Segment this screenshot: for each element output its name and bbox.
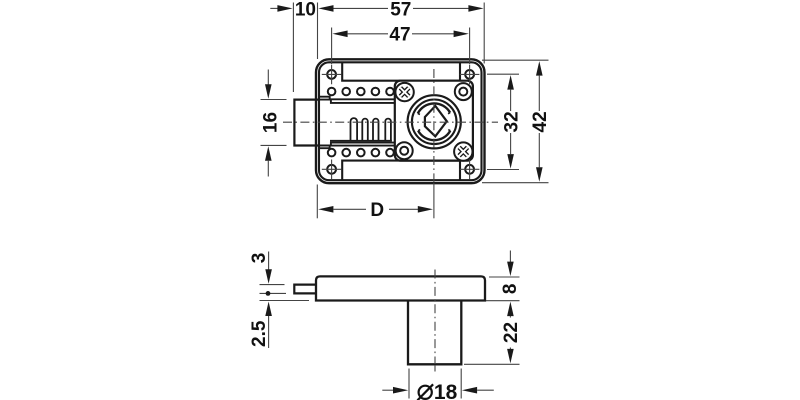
svg-text:22: 22 [501, 322, 522, 343]
dim 42 line [536, 61, 543, 76]
side view cylinder [408, 301, 461, 365]
svg-text:2.5: 2.5 [249, 320, 270, 347]
latch bolt (top view) [294, 100, 318, 146]
svg-text:47: 47 [389, 25, 410, 46]
dim 47 line [332, 31, 347, 38]
lock case inner outline [319, 62, 482, 180]
horizontal centerline [283, 121, 498, 123]
dim 8 extension lines [486, 277, 520, 301]
dim 3 / 2.5 shared dot [266, 291, 271, 296]
dim Ø18 extension lines [409, 369, 461, 399]
dim 57 line [318, 5, 333, 12]
lock case outer outline [316, 59, 485, 183]
dim 10 extension lines [293, 3, 317, 93]
spring loop 3 [373, 119, 379, 141]
dim 32 line [507, 75, 514, 90]
svg-text:D: D [370, 200, 384, 221]
spring loop 2 [362, 119, 368, 141]
dim Ø18 arrows [382, 389, 394, 391]
svg-text:57: 57 [390, 0, 411, 20]
svg-text:16: 16 [260, 112, 281, 133]
dim 32 extension lines [487, 74, 519, 169]
vertical centerline top view [433, 69, 435, 183]
latch guide step line upper outer [319, 100, 396, 103]
plate screw phillips bottom-right [454, 142, 472, 160]
dim 16 ticks [261, 100, 287, 146]
rivet hole row bottom [328, 149, 394, 157]
dim 10 arrow [270, 7, 281, 9]
cylinder mounting plate [395, 81, 473, 161]
svg-text:10: 10 [295, 0, 316, 20]
dim 22 bottom extension line [464, 363, 520, 365]
spring baseline [330, 140, 392, 142]
dim 42 extension lines [482, 60, 549, 183]
svg-text:18: 18 [434, 381, 458, 400]
plate hole ring top-right [455, 83, 472, 100]
dim D extension lines [316, 185, 318, 219]
latch guide step line lower inner [319, 146, 395, 149]
rivet hole row top [328, 88, 394, 96]
bayonet arc bottom [418, 131, 450, 140]
latch guide step line upper inner [319, 97, 395, 100]
spring loop 1 [351, 118, 358, 141]
svg-text:3: 3 [249, 253, 270, 264]
dim 16 arrows [267, 70, 269, 85]
svg-text:8: 8 [500, 284, 521, 295]
dim 8 arrows [509, 251, 511, 263]
plate bottom extension line [260, 300, 310, 302]
cylinder boss second circle [412, 100, 457, 145]
dim 3 ticks [260, 284, 285, 286]
vertical centerline extension below case [433, 183, 435, 218]
dim 22 line [509, 316, 511, 317]
bayonet notch ticks [418, 113, 451, 131]
corner hole bottom-left [322, 160, 342, 180]
corner hole top-right [460, 65, 480, 85]
side view vertical centerline [434, 270, 436, 365]
bottom recess band [342, 161, 460, 180]
dim D line [318, 206, 333, 213]
dim 2.5 arrow [265, 302, 272, 317]
corner hole bottom-right [460, 160, 480, 180]
plate screw phillips top-left [395, 83, 413, 101]
svg-text:32: 32 [501, 111, 522, 132]
latch guide step line lower outer [319, 143, 396, 146]
corner hole top-left [322, 65, 342, 85]
dim 47 extension lines [332, 28, 470, 65]
cylinder boss outer circle [408, 95, 461, 148]
side view mounting plate [316, 276, 485, 300]
svg-text:42: 42 [530, 111, 551, 132]
spring loop 4 [385, 119, 391, 141]
top recess band [342, 63, 460, 81]
spindle square hole (diamond) [425, 106, 447, 136]
side view latch tongue [294, 285, 316, 294]
plate hole ring bottom-left [396, 142, 413, 159]
dim 3 arrow [268, 252, 270, 271]
dim 57 right extension line [483, 3, 485, 64]
bayonet arc top [418, 103, 450, 113]
